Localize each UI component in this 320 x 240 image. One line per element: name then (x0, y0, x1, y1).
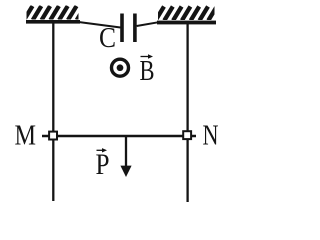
svg-text:M: M (15, 120, 37, 152)
capacitor C right plate (133, 14, 137, 43)
wire: rod MN (42, 135, 196, 137)
svg-text:C: C (99, 23, 116, 54)
fixed support (left hatching) (24, 6, 85, 20)
capacitor C left plate (120, 14, 124, 43)
force arrow P (down) (120, 137, 131, 177)
svg-text:B: B (140, 55, 155, 87)
node M (square terminal) (49, 132, 57, 140)
wire: capacitor to right support (137, 22, 158, 26)
wire: right rail (186, 24, 188, 202)
wire: left support to capacitor (79, 22, 121, 28)
fixed support (right hatching) (156, 7, 217, 21)
label P with vector arrow (96, 148, 110, 181)
field symbol: circle-dot (B out of page) (112, 59, 129, 76)
fixed support (left bar) (26, 20, 80, 24)
svg-text:N: N (203, 120, 219, 152)
label B with vector arrow (140, 54, 155, 87)
svg-text:P: P (96, 148, 110, 181)
node N (square terminal) (183, 131, 191, 139)
wire: left rail (52, 23, 54, 201)
fixed support (right bar) (157, 21, 216, 25)
